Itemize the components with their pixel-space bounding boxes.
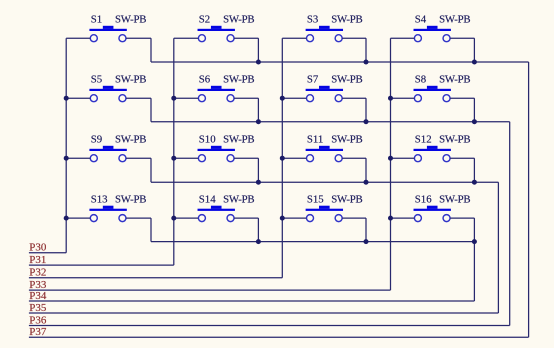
wire: S15 right pin drop to row 4 net [365, 218, 367, 242]
wire: S3 left pin to column 3 vertical [282, 37, 306, 39]
pushbutton switch S9 (SW-PB) [89, 146, 126, 162]
svg-text:SW-PB: SW-PB [115, 134, 147, 146]
wire: S5 left pin to column 1 vertical [66, 97, 90, 99]
wire: S13 left pin to column 1 vertical [66, 217, 90, 219]
junction: column 1 vertical at row 3 [64, 156, 69, 161]
svg-text:SW-PB: SW-PB [331, 14, 363, 26]
svg-text:S13: S13 [91, 194, 108, 206]
wire: S12 left pin to column 4 vertical [391, 157, 415, 159]
pushbutton switch S11 (SW-PB) [306, 146, 343, 162]
svg-text:SW-PB: SW-PB [439, 14, 471, 26]
svg-text:SW-PB: SW-PB [115, 194, 147, 206]
wire: S9 right pin stub [126, 157, 151, 159]
svg-text:S15: S15 [307, 194, 324, 206]
svg-text:P37: P37 [29, 326, 47, 338]
wire: S6 right pin stub [234, 97, 258, 99]
wire: S5 right pin stub [126, 97, 151, 99]
wire: S14 right pin drop to row 4 net [257, 218, 259, 242]
svg-text:S1: S1 [91, 14, 102, 26]
wire: S10 right pin drop to row 3 net [257, 158, 259, 182]
svg-text:S12: S12 [415, 134, 432, 146]
wire: P33 horizontal to label [29, 289, 391, 291]
wire: S11 right pin stub [342, 157, 366, 159]
svg-text:P34: P34 [29, 290, 47, 302]
wire: row 2 net horizontal (net P36) [151, 121, 510, 123]
pushbutton switch S15 (SW-PB) [306, 206, 343, 222]
wire: S16 right pin drop to row 4 net [473, 218, 475, 242]
svg-text:S4: S4 [415, 14, 427, 26]
wire: row 3 net horizontal (net P35) [151, 181, 498, 183]
junction: row 2 net at column 3 drop [364, 119, 369, 124]
svg-text:SW-PB: SW-PB [439, 194, 471, 206]
wire: S14 left pin to column 2 vertical [174, 217, 199, 219]
pushbutton switch S13 (SW-PB) [89, 206, 126, 222]
wire: S16 left pin to column 4 vertical [391, 217, 415, 219]
svg-text:SW-PB: SW-PB [331, 74, 363, 86]
wire: S13 right pin drop to row 4 net [150, 218, 152, 242]
junction: column 2 vertical at row 4 [171, 216, 176, 221]
svg-text:S11: S11 [307, 134, 323, 146]
svg-text:P36: P36 [29, 314, 47, 326]
wire: S6 left pin to column 2 vertical [174, 97, 199, 99]
wire: P31 horizontal to label [29, 264, 174, 266]
junction: column 4 vertical at row 2 [388, 96, 393, 101]
junction: row 2 net at column 4 drop [472, 119, 477, 124]
svg-text:S16: S16 [415, 194, 432, 206]
wire: S4 right pin drop to row 1 net [473, 38, 475, 62]
wire: S16 right pin stub [450, 217, 474, 219]
wire: S9 left pin to column 1 vertical [66, 157, 90, 159]
svg-text:S7: S7 [307, 74, 319, 86]
wire: S11 left pin to column 3 vertical [282, 157, 306, 159]
wire: column 4 vertical (net P33) [390, 38, 392, 290]
wire: S1 right pin stub [126, 37, 151, 39]
wire: row 1 net right descent (net P37) [528, 62, 530, 337]
wire: S15 left pin to column 3 vertical [282, 217, 306, 219]
wire: P37 horizontal to label [29, 336, 529, 338]
wire: S8 left pin to column 4 vertical [391, 97, 415, 99]
svg-text:P30: P30 [29, 242, 47, 254]
junction: row 3 net at column 4 drop [472, 180, 477, 185]
wire: S4 left pin to column 4 vertical [391, 37, 415, 39]
svg-text:P35: P35 [29, 302, 47, 314]
wire: P30 horizontal to label [29, 252, 66, 254]
svg-text:S2: S2 [199, 14, 210, 26]
wire: S2 left pin to column 2 vertical [174, 37, 199, 39]
svg-text:S5: S5 [91, 74, 102, 86]
junction: column 3 vertical at row 3 [280, 156, 285, 161]
wire: S6 right pin drop to row 2 net [257, 98, 259, 122]
wire: row 2 net right descent (net P36) [509, 122, 511, 326]
svg-text:SW-PB: SW-PB [223, 134, 255, 146]
wire: S8 right pin stub [450, 97, 474, 99]
junction: row 1 net at column 3 drop [364, 60, 369, 65]
svg-text:SW-PB: SW-PB [223, 74, 255, 86]
svg-text:S8: S8 [415, 74, 426, 86]
pushbutton switch S2 (SW-PB) [198, 26, 235, 42]
wire: S11 right pin drop to row 3 net [365, 158, 367, 182]
wire: row 4 net right descent (net P34) [473, 242, 475, 301]
svg-text:S3: S3 [307, 14, 318, 26]
svg-text:P32: P32 [29, 267, 46, 279]
junction: column 3 vertical at row 2 [280, 96, 285, 101]
svg-text:SW-PB: SW-PB [223, 194, 255, 206]
wire: S14 right pin stub [234, 217, 258, 219]
pushbutton switch S4 (SW-PB) [414, 26, 451, 42]
wire: S7 right pin stub [342, 97, 366, 99]
svg-text:SW-PB: SW-PB [223, 14, 255, 26]
svg-text:SW-PB: SW-PB [331, 134, 363, 146]
wire: S3 right pin stub [342, 37, 366, 39]
wire: S2 right pin stub [234, 37, 258, 39]
wire: P32 horizontal to label [29, 277, 282, 279]
svg-text:SW-PB: SW-PB [439, 134, 471, 146]
junction: row 3 net at column 3 drop [364, 180, 369, 185]
pushbutton switch S14 (SW-PB) [198, 206, 235, 222]
junction: row 3 net at column 2 drop [256, 180, 261, 185]
junction: column 1 vertical at row 4 [64, 216, 69, 221]
wire: P34 horizontal to label [29, 300, 475, 302]
svg-text:S6: S6 [199, 74, 211, 86]
pushbutton switch S8 (SW-PB) [414, 86, 451, 102]
wire: column 2 vertical (net P31) [173, 38, 175, 265]
wire: S2 right pin drop to row 1 net [257, 38, 259, 62]
wire: S15 right pin stub [342, 217, 366, 219]
svg-text:S9: S9 [91, 134, 102, 146]
junction: row 1 net at column 4 drop [472, 60, 477, 65]
junction: column 2 vertical at row 2 [171, 96, 176, 101]
junction: row 4 net at column 3 drop [364, 239, 369, 244]
wire: S12 right pin drop to row 3 net [473, 158, 475, 182]
junction: row 4 net at column 4 drop [472, 239, 477, 244]
svg-text:SW-PB: SW-PB [115, 14, 147, 26]
wire: row 3 net right descent (net P35) [497, 182, 499, 313]
junction: column 4 vertical at row 3 [388, 156, 393, 161]
wire: row 1 net horizontal (net P37) [151, 61, 529, 63]
wire: S1 right pin drop to row 1 net [150, 38, 152, 62]
svg-text:SW-PB: SW-PB [331, 194, 363, 206]
wire: P35 horizontal to label [29, 312, 499, 314]
wire: S1 left pin to column 1 vertical [66, 37, 90, 39]
junction: row 2 net at column 2 drop [256, 119, 261, 124]
pushbutton switch S5 (SW-PB) [89, 86, 126, 102]
pushbutton switch S16 (SW-PB) [414, 206, 451, 222]
junction: row 4 net at column 2 drop [256, 239, 261, 244]
junction: column 3 vertical at row 4 [280, 216, 285, 221]
svg-text:P31: P31 [29, 254, 46, 266]
svg-text:S14: S14 [199, 194, 216, 206]
pushbutton switch S10 (SW-PB) [198, 146, 235, 162]
svg-text:SW-PB: SW-PB [115, 74, 147, 86]
wire: S10 right pin stub [234, 157, 258, 159]
wire: S9 right pin drop to row 3 net [150, 158, 152, 182]
pushbutton switch S1 (SW-PB) [89, 26, 126, 42]
svg-text:SW-PB: SW-PB [439, 74, 471, 86]
wire: S7 right pin drop to row 2 net [365, 98, 367, 122]
wire: S7 left pin to column 3 vertical [282, 97, 306, 99]
svg-text:S10: S10 [199, 134, 216, 146]
junction: column 1 vertical at row 2 [64, 96, 69, 101]
wire: S12 right pin stub [450, 157, 474, 159]
wire: P36 horizontal to label [29, 325, 510, 327]
junction: row 1 net at column 2 drop [256, 60, 261, 65]
wire: column 3 vertical (net P32) [281, 38, 283, 278]
pushbutton switch S6 (SW-PB) [198, 86, 235, 102]
wire: column 1 vertical (net P30) [65, 38, 67, 253]
wire: S5 right pin drop to row 2 net [150, 98, 152, 122]
wire: S4 right pin stub [450, 37, 474, 39]
junction: column 4 vertical at row 4 [388, 216, 393, 221]
wire: S13 right pin stub [126, 217, 151, 219]
wire: row 4 net horizontal (net P34) [151, 241, 474, 243]
wire: S3 right pin drop to row 1 net [365, 38, 367, 62]
pushbutton switch S12 (SW-PB) [414, 146, 451, 162]
wire: S8 right pin drop to row 2 net [473, 98, 475, 122]
pushbutton switch S7 (SW-PB) [306, 86, 343, 102]
wire: S10 left pin to column 2 vertical [174, 157, 199, 159]
pushbutton switch S3 (SW-PB) [306, 26, 343, 42]
junction: column 2 vertical at row 3 [171, 156, 176, 161]
